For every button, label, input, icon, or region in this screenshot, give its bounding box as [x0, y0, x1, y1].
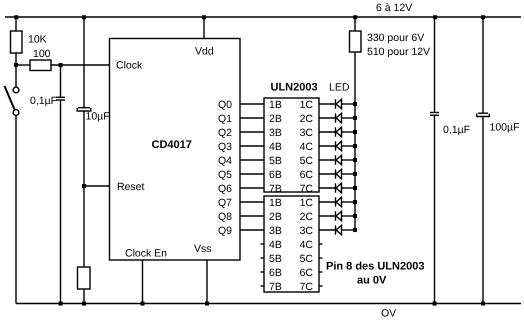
LED D6 [319, 169, 355, 178]
svg-text:Vdd: Vdd [195, 46, 214, 58]
resistor 10K [11, 17, 47, 65]
svg-text:2B: 2B [269, 211, 282, 223]
node LED bus junction dot D3 [353, 130, 357, 134]
svg-text:3C: 3C [300, 225, 314, 237]
svg-text:au 0V: au 0V [357, 275, 387, 287]
svg-text:10µF: 10µF [86, 111, 110, 123]
svg-text:4C: 4C [300, 239, 314, 251]
wire +V top rail [5, 16, 521, 18]
svg-text:Clock En: Clock En [125, 248, 167, 260]
svg-text:Clock: Clock [116, 60, 143, 72]
wire LED anode bus [354, 52, 356, 230]
LED D3 [319, 127, 355, 136]
svg-text:Q3: Q3 [218, 141, 232, 153]
svg-text:5C: 5C [300, 253, 314, 265]
wire Q1 to ULN [240, 117, 264, 119]
svg-text:4C: 4C [300, 141, 314, 153]
LED D5 [319, 155, 355, 164]
svg-text:5B: 5B [269, 253, 282, 265]
node LED bus junction dot D1 [353, 102, 357, 106]
node 6V junction dot (10uF) [82, 15, 86, 19]
wire Q0 to ULN [240, 103, 264, 105]
node 6V junction dot (100uF) [481, 15, 485, 19]
node 0V junction dot (reset R) [82, 302, 86, 306]
node LED bus junction dot D8 [353, 200, 357, 204]
wire Clock En [142, 260, 144, 304]
svg-text:5C: 5C [300, 155, 314, 167]
svg-text:Q8: Q8 [218, 211, 232, 223]
svg-text:Reset: Reset [117, 181, 145, 193]
svg-text:1C: 1C [300, 197, 314, 209]
svg-text:2C: 2C [300, 113, 314, 125]
LED D9 [319, 211, 355, 220]
svg-text:1B: 1B [269, 99, 282, 111]
svg-text:1B: 1B [269, 197, 282, 209]
svg-text:7B: 7B [269, 281, 282, 293]
node 0V junction dot (0,1uF right) [433, 302, 437, 306]
LED D1 [319, 99, 355, 108]
LED D10 [319, 225, 355, 234]
svg-text:Pin 8 des ULN2003: Pin 8 des ULN2003 [326, 261, 424, 273]
svg-text:Q1: Q1 [218, 113, 232, 125]
svg-text:7B: 7B [269, 183, 282, 195]
wire Vss [206, 260, 208, 304]
svg-text:1C: 1C [300, 99, 314, 111]
LED D8 [319, 197, 355, 206]
wire stub 6C unused [319, 271, 323, 273]
svg-text:2C: 2C [300, 211, 314, 223]
svg-text:100µF: 100µF [490, 122, 520, 134]
wire 0V bottom rail [16, 303, 521, 305]
svg-text:10K: 10K [28, 34, 47, 46]
svg-text:2B: 2B [269, 113, 282, 125]
svg-text:4B: 4B [269, 239, 282, 251]
capacitor 0,1uF (clock) [30, 65, 65, 304]
capacitor 0,1uF (supply decoupling) [430, 17, 470, 304]
wire stub 4C unused [319, 243, 323, 245]
node LED bus junction dot D10 [353, 228, 357, 232]
IC ULN2003 #1 [264, 98, 319, 195]
svg-text:CD4017: CD4017 [152, 139, 192, 151]
svg-text:6B: 6B [269, 169, 282, 181]
svg-text:510 pour 12V: 510 pour 12V [367, 46, 430, 58]
node A junction dot [14, 63, 18, 67]
svg-text:330 pour 6V: 330 pour 6V [367, 32, 424, 44]
svg-text:0,1µF: 0,1µF [443, 124, 470, 136]
wire stub 4B unused [261, 243, 265, 245]
IC ULN2003 #2 [264, 196, 319, 293]
svg-text:5B: 5B [269, 155, 282, 167]
svg-text:4B: 4B [269, 141, 282, 153]
LED D4 [319, 141, 355, 150]
svg-text:100: 100 [33, 48, 51, 60]
capacitor 10uF (reset, polarized) [77, 17, 109, 186]
switch (push button to 0V) [5, 65, 19, 304]
node clock junction dot [59, 63, 63, 67]
svg-text:OV: OV [381, 308, 396, 320]
svg-text:6C: 6C [300, 267, 314, 279]
svg-text:6C: 6C [300, 169, 314, 181]
capacitor 100uF (supply, polarized) [477, 17, 520, 304]
svg-text:Q6: Q6 [218, 183, 232, 195]
svg-text:Q9: Q9 [218, 225, 232, 237]
svg-text:Vss: Vss [194, 243, 212, 255]
node 6V junction dot (0,1uF right) [433, 15, 437, 19]
wire stub 7C unused [319, 285, 323, 287]
node 6V junction dot (Vdd) [202, 15, 206, 19]
svg-text:Q4: Q4 [218, 155, 232, 167]
wire Vdd [203, 17, 205, 39]
wire Q8 to ULN [240, 215, 264, 217]
svg-text:0,1µF: 0,1µF [30, 95, 57, 107]
node LED bus junction dot D6 [353, 172, 357, 176]
svg-text:Q2: Q2 [218, 127, 232, 139]
svg-text:3C: 3C [300, 127, 314, 139]
node 0V junction dot (Clock En) [141, 302, 145, 306]
svg-text:ULN2003: ULN2003 [271, 82, 318, 94]
node LED bus junction dot D4 [353, 144, 357, 148]
wire Q9 to ULN [240, 229, 264, 231]
node LED bus junction dot D2 [353, 116, 357, 120]
wire Q2 to ULN [240, 131, 264, 133]
LED D2 [319, 113, 355, 122]
node 6V junction dot (330R) [353, 15, 357, 19]
wire reset [84, 185, 110, 187]
resistor 100 [16, 48, 110, 71]
resistor 330/510 (LED supply) [350, 17, 431, 58]
node 0V junction dot (Vss) [205, 302, 209, 306]
svg-text:Q0: Q0 [218, 99, 232, 111]
wire Q5 to ULN [240, 173, 264, 175]
node reset junction dot [82, 184, 86, 188]
svg-text:7C: 7C [300, 281, 314, 293]
label Pin 8 des ULN2003 au 0V [326, 261, 424, 287]
node 0V junction dot (0,1uF) [59, 302, 63, 306]
node LED bus junction dot D5 [353, 158, 357, 162]
svg-text:6B: 6B [269, 267, 282, 279]
svg-text:Q5: Q5 [218, 169, 232, 181]
LED D7 [319, 183, 355, 192]
node 6V junction dot (10K) [14, 15, 18, 19]
svg-text:3B: 3B [269, 127, 282, 139]
wire stub 6B unused [261, 271, 265, 273]
wire stub 5C unused [319, 257, 323, 259]
svg-text:LED: LED [329, 82, 350, 94]
wire Q6 to ULN [240, 187, 264, 189]
wire Q4 to ULN [240, 159, 264, 161]
node 0V junction dot (100uF) [481, 302, 485, 306]
svg-text:Q7: Q7 [218, 197, 232, 209]
node LED bus junction dot D7 [353, 186, 357, 190]
resistor (reset pull-down) [78, 186, 91, 304]
svg-text:6 à 12V: 6 à 12V [376, 2, 412, 14]
node LED bus junction dot D9 [353, 214, 357, 218]
wire Q3 to ULN [240, 145, 264, 147]
svg-text:7C: 7C [300, 183, 314, 195]
svg-text:3B: 3B [269, 225, 282, 237]
op-amp U1 CD4017 decade counter [110, 39, 241, 261]
wire Q7 to ULN [240, 201, 264, 203]
wire stub 5B unused [261, 257, 265, 259]
wire stub 7B unused [261, 285, 265, 287]
